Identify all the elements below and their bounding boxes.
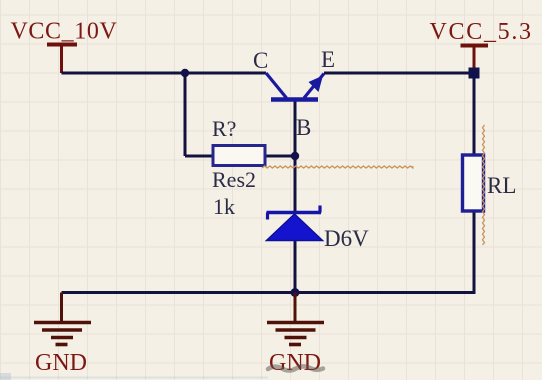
zigzag highlight horizontal	[262, 166, 413, 168]
power symbol VCC_10V bar	[47, 45, 77, 74]
transistor Q1 emitter stroke	[304, 74, 324, 99]
artifact smudge below center GND	[268, 366, 323, 370]
svg-text:1k: 1k	[213, 194, 235, 219]
wire into resistor left pin	[185, 155, 213, 158]
junction node at VCC_5.3 rail	[469, 68, 480, 79]
svg-text:VCC_5.3: VCC_5.3	[430, 19, 533, 45]
svg-text:B: B	[296, 115, 311, 140]
wire base vertical	[294, 99, 297, 212]
transistor Q1 emitter arrowhead	[309, 76, 324, 93]
ground symbol left bars	[34, 323, 91, 345]
svg-text:C: C	[253, 48, 268, 73]
svg-text:E: E	[321, 47, 335, 72]
wire left vertical drop to resistor	[184, 73, 187, 156]
zener diode D1 cathode bar	[267, 206, 322, 220]
wire top-left horizontal	[62, 72, 267, 75]
ground symbol center bars	[267, 323, 324, 345]
wire right rail upper	[473, 71, 476, 156]
wire emitter to right rail	[324, 72, 474, 75]
ground symbol center stem	[294, 293, 297, 322]
wire diode anode down	[294, 240, 297, 293]
svg-text:GND: GND	[35, 350, 87, 376]
resistor RL body	[463, 155, 484, 211]
svg-text:D6V: D6V	[324, 226, 369, 251]
junction node at bottom center	[291, 288, 300, 297]
zener diode D1 anode triangle	[267, 214, 323, 241]
transistor Q1 collector stroke	[266, 73, 287, 98]
wire right rail lower	[473, 210, 476, 294]
zigzag highlight vertical	[483, 125, 485, 245]
resistor R? body	[213, 146, 265, 166]
power symbol VCC_5.3 bar	[461, 46, 489, 72]
svg-text:GND: GND	[269, 350, 321, 376]
svg-text:R?: R?	[212, 116, 236, 141]
wire resistor right pin to node B	[265, 155, 295, 158]
ground symbol left stem	[60, 293, 63, 322]
svg-text:RL: RL	[487, 173, 516, 198]
junction node at collector rail	[181, 69, 189, 77]
junction node B at resistor/diode	[291, 152, 299, 160]
svg-text:VCC_10V: VCC_10V	[11, 19, 118, 45]
wire bottom horizontal	[62, 291, 475, 294]
svg-text:Res2: Res2	[212, 167, 256, 192]
transistor Q1 base bar	[271, 97, 318, 102]
